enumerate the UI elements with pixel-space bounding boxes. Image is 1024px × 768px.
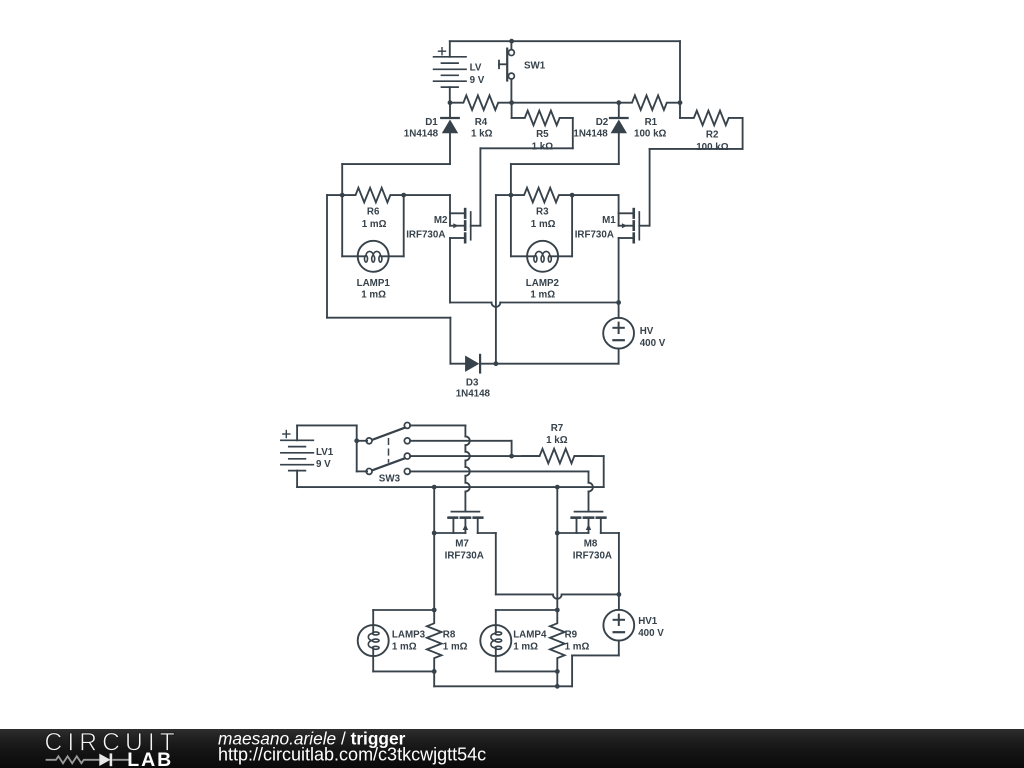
svg-text:LAMP4: LAMP4 [513,629,547,640]
battery LV (9 V) [434,41,466,102]
wire top rail [450,41,680,102]
wire SW3 throw2 [410,441,512,456]
svg-text:LAB: LAB [127,749,173,768]
svg-text:R2: R2 [706,129,719,140]
wire R7 right to rail [603,456,605,487]
wire R6 right to M2 [404,194,450,196]
svg-text:1 mΩ: 1 mΩ [443,642,468,653]
label D3 value [456,377,491,399]
lamp LAMP3 (1 m&#937;) [358,625,389,656]
node R3 left [509,193,514,198]
svg-text:1 mΩ: 1 mΩ [362,219,387,230]
resistor R4 (1 k&#937;) [450,95,512,110]
wire LAMP1 loop [342,195,404,256]
wire R2 to M1 gate [650,118,743,226]
wire SW1 junction to D2 [512,102,619,104]
footer bar [0,729,1024,768]
wire LV1 bottom rail [297,486,604,488]
switch SW1 (pushbutton) [499,41,514,102]
resistor R8 (1 m&#937;) [427,610,442,671]
svg-text:LV: LV [470,63,482,74]
svg-text:1 kΩ: 1 kΩ [532,141,554,152]
resistor R7 (1 k&#937;) [512,449,604,464]
CircuitLab logo [0,729,520,768]
wire M7 drain column [433,487,435,610]
label R9 value [565,629,590,652]
transistor M7 (IRF730A) [434,512,496,533]
node rail/M7 [432,485,437,490]
diode D3 (1N4148) [465,355,480,373]
node rail/M8 [555,485,560,490]
svg-text:D1: D1 [425,117,438,128]
wire D2 to R3 loop [511,164,619,195]
battery LV1 (9 V) [281,425,313,487]
node battery/R4/D1 [448,100,453,105]
label M7 value [445,538,484,561]
label M1 value [575,215,617,240]
node M8 drain junction [555,531,560,536]
resistor R9 (1 m&#937;) [550,610,565,671]
node M7 drain junction [432,531,437,536]
node D3 output junction [494,361,499,366]
svg-text:M8: M8 [584,538,598,549]
svg-text:1N4148: 1N4148 [456,389,491,400]
wire R5 to M2 gate [480,118,572,226]
node R7 left junction [509,454,514,459]
svg-text:IRF730A: IRF730A [406,229,445,240]
svg-text:IRF730A: IRF730A [573,551,612,562]
node HV1 top junction [617,592,622,597]
node HV top junction [616,300,621,305]
svg-text:R9: R9 [565,629,578,640]
label R6 value [362,207,387,230]
node R8 top [432,608,437,613]
node SW3 pole junction [354,438,359,443]
lamp LAMP1 (1 m&#937;) [358,241,389,272]
node R6 left [340,193,345,198]
wire LAMP4 top [496,610,558,625]
svg-text:D2: D2 [596,117,609,128]
wire R3 right to M1 [572,194,619,196]
svg-text:HV: HV [640,326,654,337]
svg-text:1 mΩ: 1 mΩ [392,642,417,653]
lamp LAMP4 (1 m&#937;) [480,625,511,656]
svg-text:R8: R8 [443,629,456,640]
label D2 value [573,117,608,139]
svg-text:400 V: 400 V [640,338,666,349]
svg-text:R3: R3 [536,207,549,218]
label LAMP3 value [392,629,426,652]
wire LV1 top to SW3 [297,425,357,440]
label R3 value [531,207,556,230]
resistor R5 (1 k&#937;) [512,103,573,126]
node R8 bottom [432,669,437,674]
node D2 top [616,100,621,105]
svg-text:R5: R5 [536,129,549,140]
label LV1 value [316,447,334,470]
label D1 value [404,117,439,139]
svg-text:1N4148: 1N4148 [573,128,608,139]
resistor R1 (100 k&#937;) [619,95,680,110]
wire SW3 throw3 [410,455,512,457]
label SW3 [379,474,401,485]
node R1/R2/rail [678,100,683,105]
wire SW3 throw1 to M7 gate [410,425,470,511]
svg-text:100 kΩ: 100 kΩ [634,128,667,139]
wire M8 source down [618,533,620,594]
label R7 value [546,423,568,446]
label R5 value [532,129,554,152]
resistor R2 (100 k&#937;) [680,103,743,126]
label LAMP4 value [513,629,547,652]
svg-text:M2: M2 [434,215,448,226]
svg-text:HV1: HV1 [638,616,658,627]
node R9 bottom [555,669,560,674]
svg-text:1 mΩ: 1 mΩ [513,642,538,653]
svg-text:100 kΩ: 100 kΩ [696,142,729,153]
label M2 value [406,215,448,240]
lamp LAMP2 (1 m&#937;) [527,241,558,272]
svg-text:1 mΩ: 1 mΩ [565,642,590,653]
label R8 value [443,629,468,652]
svg-text:LV1: LV1 [316,447,334,458]
label HV value [640,326,666,349]
wire M2/M1 sources to HV [450,303,619,307]
transistor M8 (IRF730A) [557,512,619,533]
svg-text:1N4148: 1N4148 [404,128,439,139]
svg-text:1 kΩ: 1 kΩ [546,435,568,446]
svg-text:1 kΩ: 1 kΩ [471,128,493,139]
svg-text:M7: M7 [455,538,469,549]
label HV1 value [638,616,664,639]
voltage source HV (400 V) [603,303,634,364]
wire LAMP2 loop [511,195,572,256]
svg-text:R6: R6 [367,207,380,218]
node bottom rail junction [555,684,560,689]
wire D3 to HV bottom [481,363,619,365]
label SW1 [524,60,546,71]
label R4 value [471,117,493,139]
diode D2 (1N4148) [610,103,628,164]
svg-text:9 V: 9 V [316,459,331,470]
wire LAMP3 top [373,610,434,625]
diode D1 (1N4148) [441,103,459,164]
transistor M1 (IRF730A) [619,195,649,302]
node R6 right [401,193,406,198]
switch SW3 (DPDT) [357,422,411,474]
svg-text:LAMP2: LAMP2 [526,278,560,289]
svg-text:9 V: 9 V [470,75,485,86]
resistor R3 (1 m&#937;) [511,188,572,203]
transistor M2 (IRF730A) [450,195,480,302]
node SW1/R4/R5 [509,100,514,105]
wire SW3 throw4 to M8 gate [410,471,593,511]
svg-text:1 mΩ: 1 mΩ [531,219,556,230]
wire bottom return to HV1 [434,655,619,686]
wire R6 left loop to D3 [327,195,465,364]
svg-text:LAMP1: LAMP1 [357,278,391,289]
label LV value [470,63,485,86]
node SW1 top junction [509,39,514,44]
svg-text:SW1: SW1 [524,60,546,71]
wire LAMP4 bottom [496,656,558,671]
wire R3 left loop down [496,195,511,364]
node R3 right [570,193,575,198]
label M8 value [573,538,612,561]
resistor R6 (1 m&#937;) [342,188,404,203]
svg-text:400 V: 400 V [638,628,664,639]
svg-text:1 mΩ: 1 mΩ [361,289,386,300]
label R1 value [634,117,667,139]
svg-text:R7: R7 [551,423,564,434]
logo resistor-diode glyph [46,756,130,763]
svg-text:R1: R1 [645,117,658,128]
wire D1 to R6 loop [342,164,450,195]
svg-text:SW3: SW3 [379,474,401,485]
wire M7/M8 sources to HV1 [496,594,619,598]
svg-text:R4: R4 [475,117,488,128]
voltage source HV1 (400 V) [603,594,634,655]
svg-text:1 mΩ: 1 mΩ [530,289,555,300]
label LAMP2 value [526,278,560,301]
label LAMP1 value [357,278,391,301]
svg-text:M1: M1 [602,215,616,226]
svg-text:LAMP3: LAMP3 [392,629,426,640]
wire M8 drain column [556,487,558,610]
node R9 top [555,608,560,613]
wire M7 source down [495,533,497,594]
svg-text:IRF730A: IRF730A [575,229,614,240]
label R2 value [696,129,729,153]
wire LAMP3 bottom [373,656,434,671]
svg-text:D3: D3 [466,377,479,388]
svg-text:IRF730A: IRF730A [445,551,484,562]
svg-text:http://circuitlab.com/c3tkcwjg: http://circuitlab.com/c3tkcwjgtt54c [218,745,486,765]
